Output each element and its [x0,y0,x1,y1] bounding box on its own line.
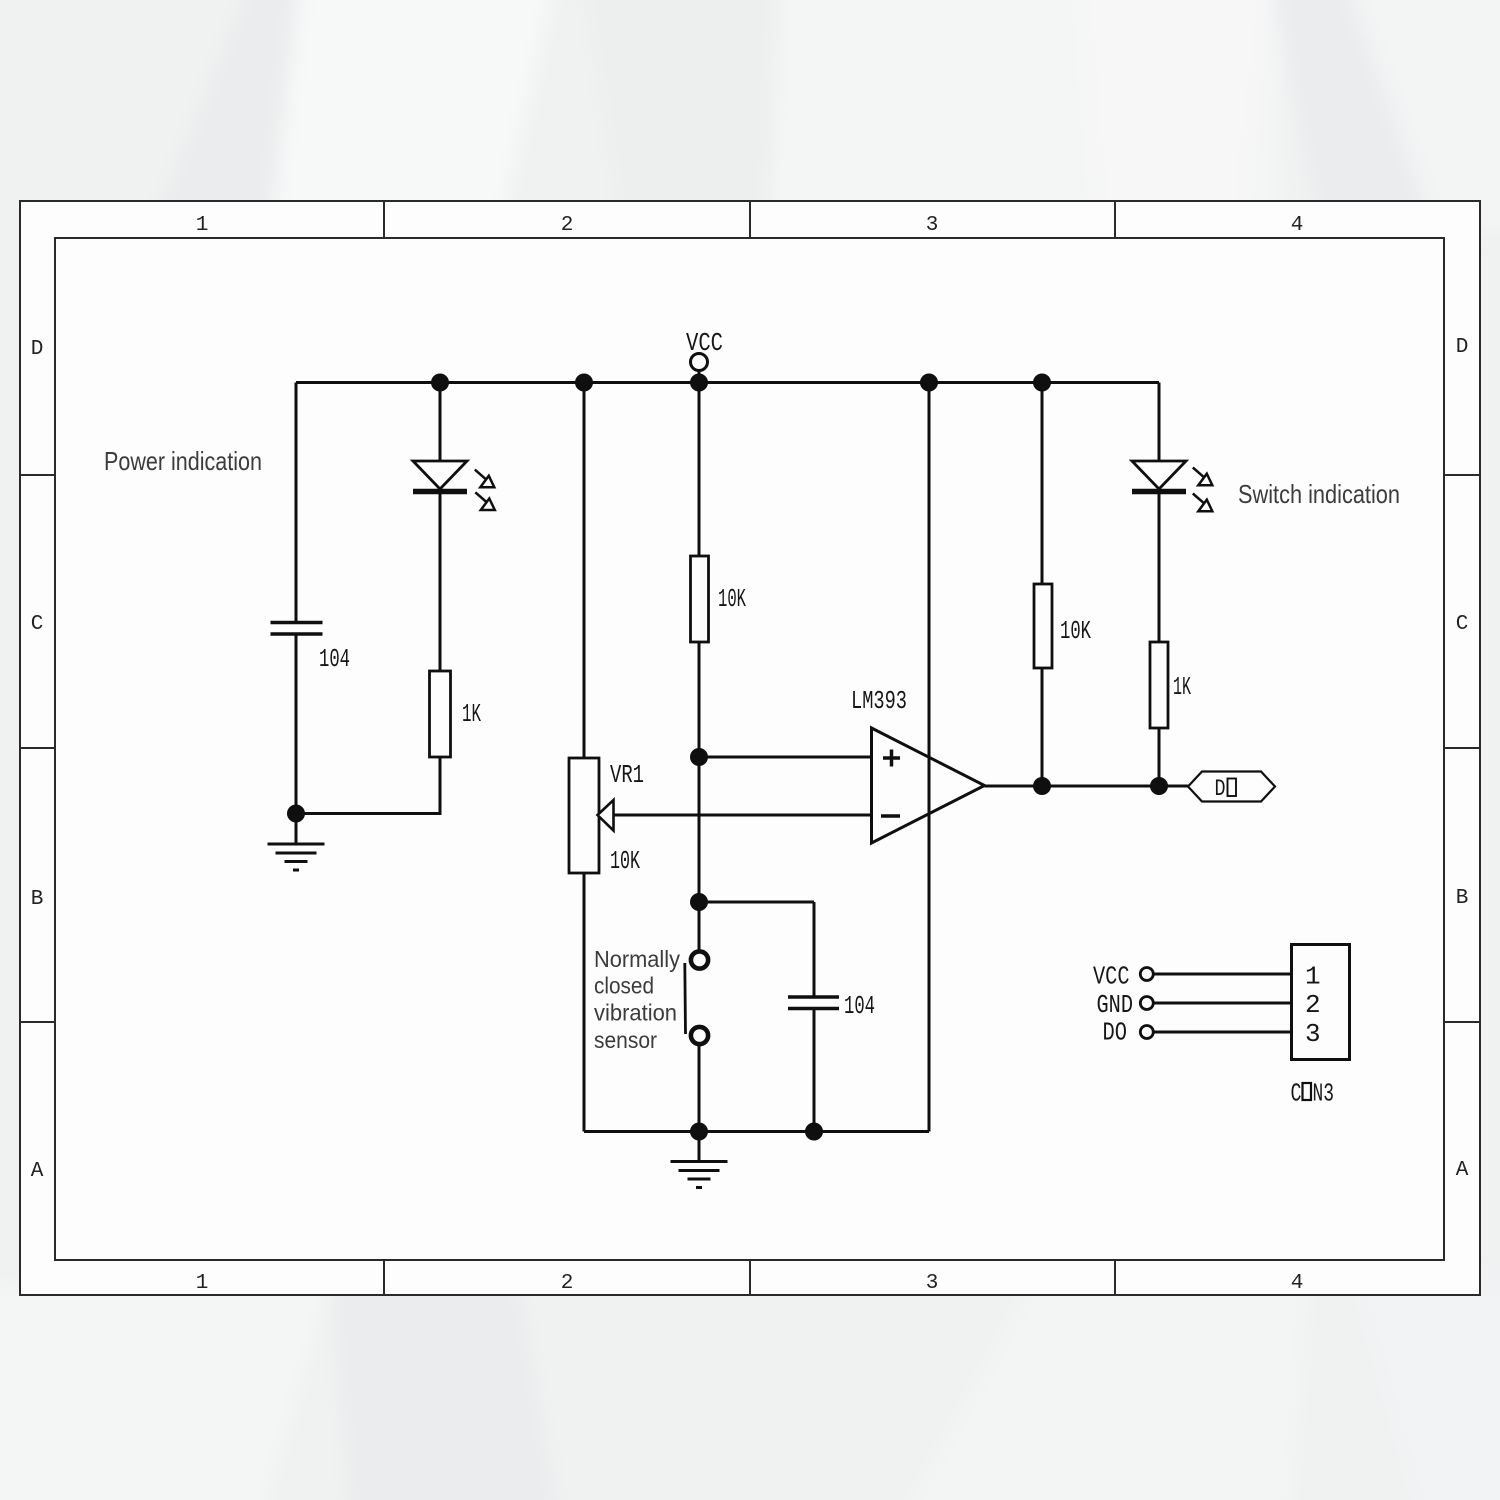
node junction dot plus input [690,748,708,766]
connector CON3 pin wire GND [1154,1002,1292,1005]
wire resistor R3 bottom to output node [1041,668,1044,786]
op-amp U1 LM393 triangle [872,728,985,843]
svg-text:104: 104 [319,644,350,674]
wire LED2 cathode to resistor R4 [1158,489,1161,642]
connector CON3 pin circle VCC [1140,968,1153,981]
power symbol VCC circle [691,354,708,371]
svg-text:3: 3 [926,214,939,237]
connector CON3 pin wire VCC [1154,973,1292,976]
capacitor C2 plates [788,997,839,1009]
wire VR1 bottom to ground rail [583,873,586,1132]
LED1 light arrow lower [475,492,495,510]
ground symbol left [268,814,325,871]
wire resistor R1 branch from rail [698,383,701,557]
connector CON3 pin wire DO [1154,1031,1292,1034]
wire LED2 branch from rail [1158,383,1161,462]
svg-text:Switch indication: Switch indication [1238,479,1400,509]
wire capacitor C1 branch upper [295,383,298,622]
resistor R4 body [1150,642,1168,728]
node junction dot bottom rail sensor [690,1123,708,1141]
svg-text:10K: 10K [1060,616,1091,646]
svg-text:D: D [1456,336,1469,359]
svg-text:A: A [31,1160,44,1183]
svg-text:GND: GND [1097,990,1134,1020]
op-amp U1 plus input symbol [883,750,900,767]
svg-text:N3: N3 [1313,1079,1335,1109]
svg-text:104: 104 [844,991,875,1021]
zone labels top [31,214,1469,1295]
wire plus node down to sensor node [698,757,701,902]
svg-text:B: B [31,888,44,911]
svg-text:closed: closed [594,973,654,999]
connector CON3 body [1292,945,1350,1060]
wire capacitor C1 branch lower to ground node [295,636,298,814]
wire capacitor C2 bottom [813,1010,816,1132]
node junction dot ground left [287,805,305,823]
svg-text:VCC: VCC [686,328,723,358]
svg-text:C: C [31,613,44,636]
annotation normally closed vibration sensor [594,946,680,1053]
node junction dot output R4 [1150,777,1168,795]
wire capacitor C2 top [813,902,816,996]
LED2 diode triangle [1132,461,1186,489]
LED1 cathode bar [413,489,467,495]
svg-text:VCC: VCC [1093,962,1130,992]
svg-text:VR1: VR1 [610,760,644,790]
LED2 light arrow lower [1193,494,1213,512]
potentiometer VR1 body [569,758,599,873]
wire node plus to op-amp [699,756,872,759]
svg-text:D: D [31,338,44,361]
resistor R1 body [691,556,709,642]
LED2 cathode bar [1132,489,1186,495]
connector CON3 pin circle DO [1140,1026,1153,1039]
svg-text:4: 4 [1291,1272,1304,1295]
wire sensor node to capacitor C2 [699,901,814,904]
schematic sheet [20,201,1480,1295]
wire op-amp output to DO flag [985,785,1189,788]
svg-text:Power indication: Power indication [104,446,262,476]
wire VR1 branch from rail [583,383,586,759]
wire sensor node down to sensor top contact [698,902,701,950]
LED1 light arrow upper [475,470,495,488]
svg-text:vibration: vibration [594,1000,677,1026]
svg-text:C: C [1291,1079,1302,1109]
wire LED1 branch from rail [439,383,442,462]
svg-text:D: D [1215,776,1226,802]
resistor R2 body [430,671,451,757]
svg-text:Normally: Normally [594,946,680,972]
frame inner border [55,238,1444,1260]
node junction dot rail at R3 [1033,374,1051,392]
vibration sensor S1 top contact [691,951,708,968]
frame zone tick marks [20,201,1480,1295]
wire resistor R1 bottom to plus node [698,642,701,757]
svg-text:DO: DO [1103,1018,1128,1048]
svg-text:2: 2 [1305,990,1321,1020]
capacitor C1 plates [271,623,323,635]
svg-text:3: 3 [926,1272,939,1295]
svg-text:C: C [1456,613,1469,636]
vibration sensor S1 bottom contact [691,1027,708,1044]
svg-text:10K: 10K [718,584,746,614]
svg-text:LM393: LM393 [851,686,907,716]
LED1 diode triangle [413,461,467,489]
svg-text:4: 4 [1291,214,1304,237]
svg-text:1: 1 [1305,962,1321,992]
DO output flag outline [1188,772,1275,802]
svg-text:1: 1 [196,1272,209,1295]
connector CON3 pin circle GND [1140,997,1153,1010]
node junction dot bottom rail C2 [805,1123,823,1141]
op-amp U1 minus input symbol [881,814,900,818]
wire resistor R4 bottom to output node [1158,728,1161,786]
node junction dot rail at supply line [920,374,938,392]
vibration sensor S1 switch bar [683,963,687,1034]
node junction dot output R3 [1033,777,1051,795]
svg-text:3: 3 [1305,1019,1321,1049]
node junction dot rail at VR1 [575,374,593,392]
svg-text:B: B [1456,887,1469,910]
wire resistor R3 branch from rail [1041,383,1044,585]
svg-text:1K: 1K [1173,672,1191,702]
resistor R3 body [1034,584,1052,668]
svg-text:sensor: sensor [594,1027,657,1053]
wire sensor bottom contact to ground rail [698,1046,701,1132]
wire comparator supply line crossing op-amp [928,383,931,1132]
svg-text:2: 2 [561,214,574,237]
wire resistor R2 bottom to ground rail [296,757,440,814]
svg-text:10K: 10K [610,846,640,876]
ground symbol bottom [671,1132,728,1188]
node junction dot sensor top [690,893,708,911]
svg-text:2: 2 [561,1272,574,1295]
node junction dot rail at VCC [690,374,708,392]
wire bottom ground rail [584,1130,929,1133]
svg-text:1K: 1K [462,699,481,729]
LED2 light arrow upper [1193,468,1213,486]
wire VR1 wiper to op-amp minus input [613,814,872,817]
wire LED1 cathode to resistor R2 [439,489,442,671]
wire VCC top rail [296,381,1159,384]
svg-text:1: 1 [196,214,209,237]
potentiometer VR1 wiper arrowhead [598,800,614,831]
wire VCC stub [698,371,701,383]
svg-text:A: A [1456,1159,1469,1182]
node junction dot rail at LED1 [431,374,449,392]
